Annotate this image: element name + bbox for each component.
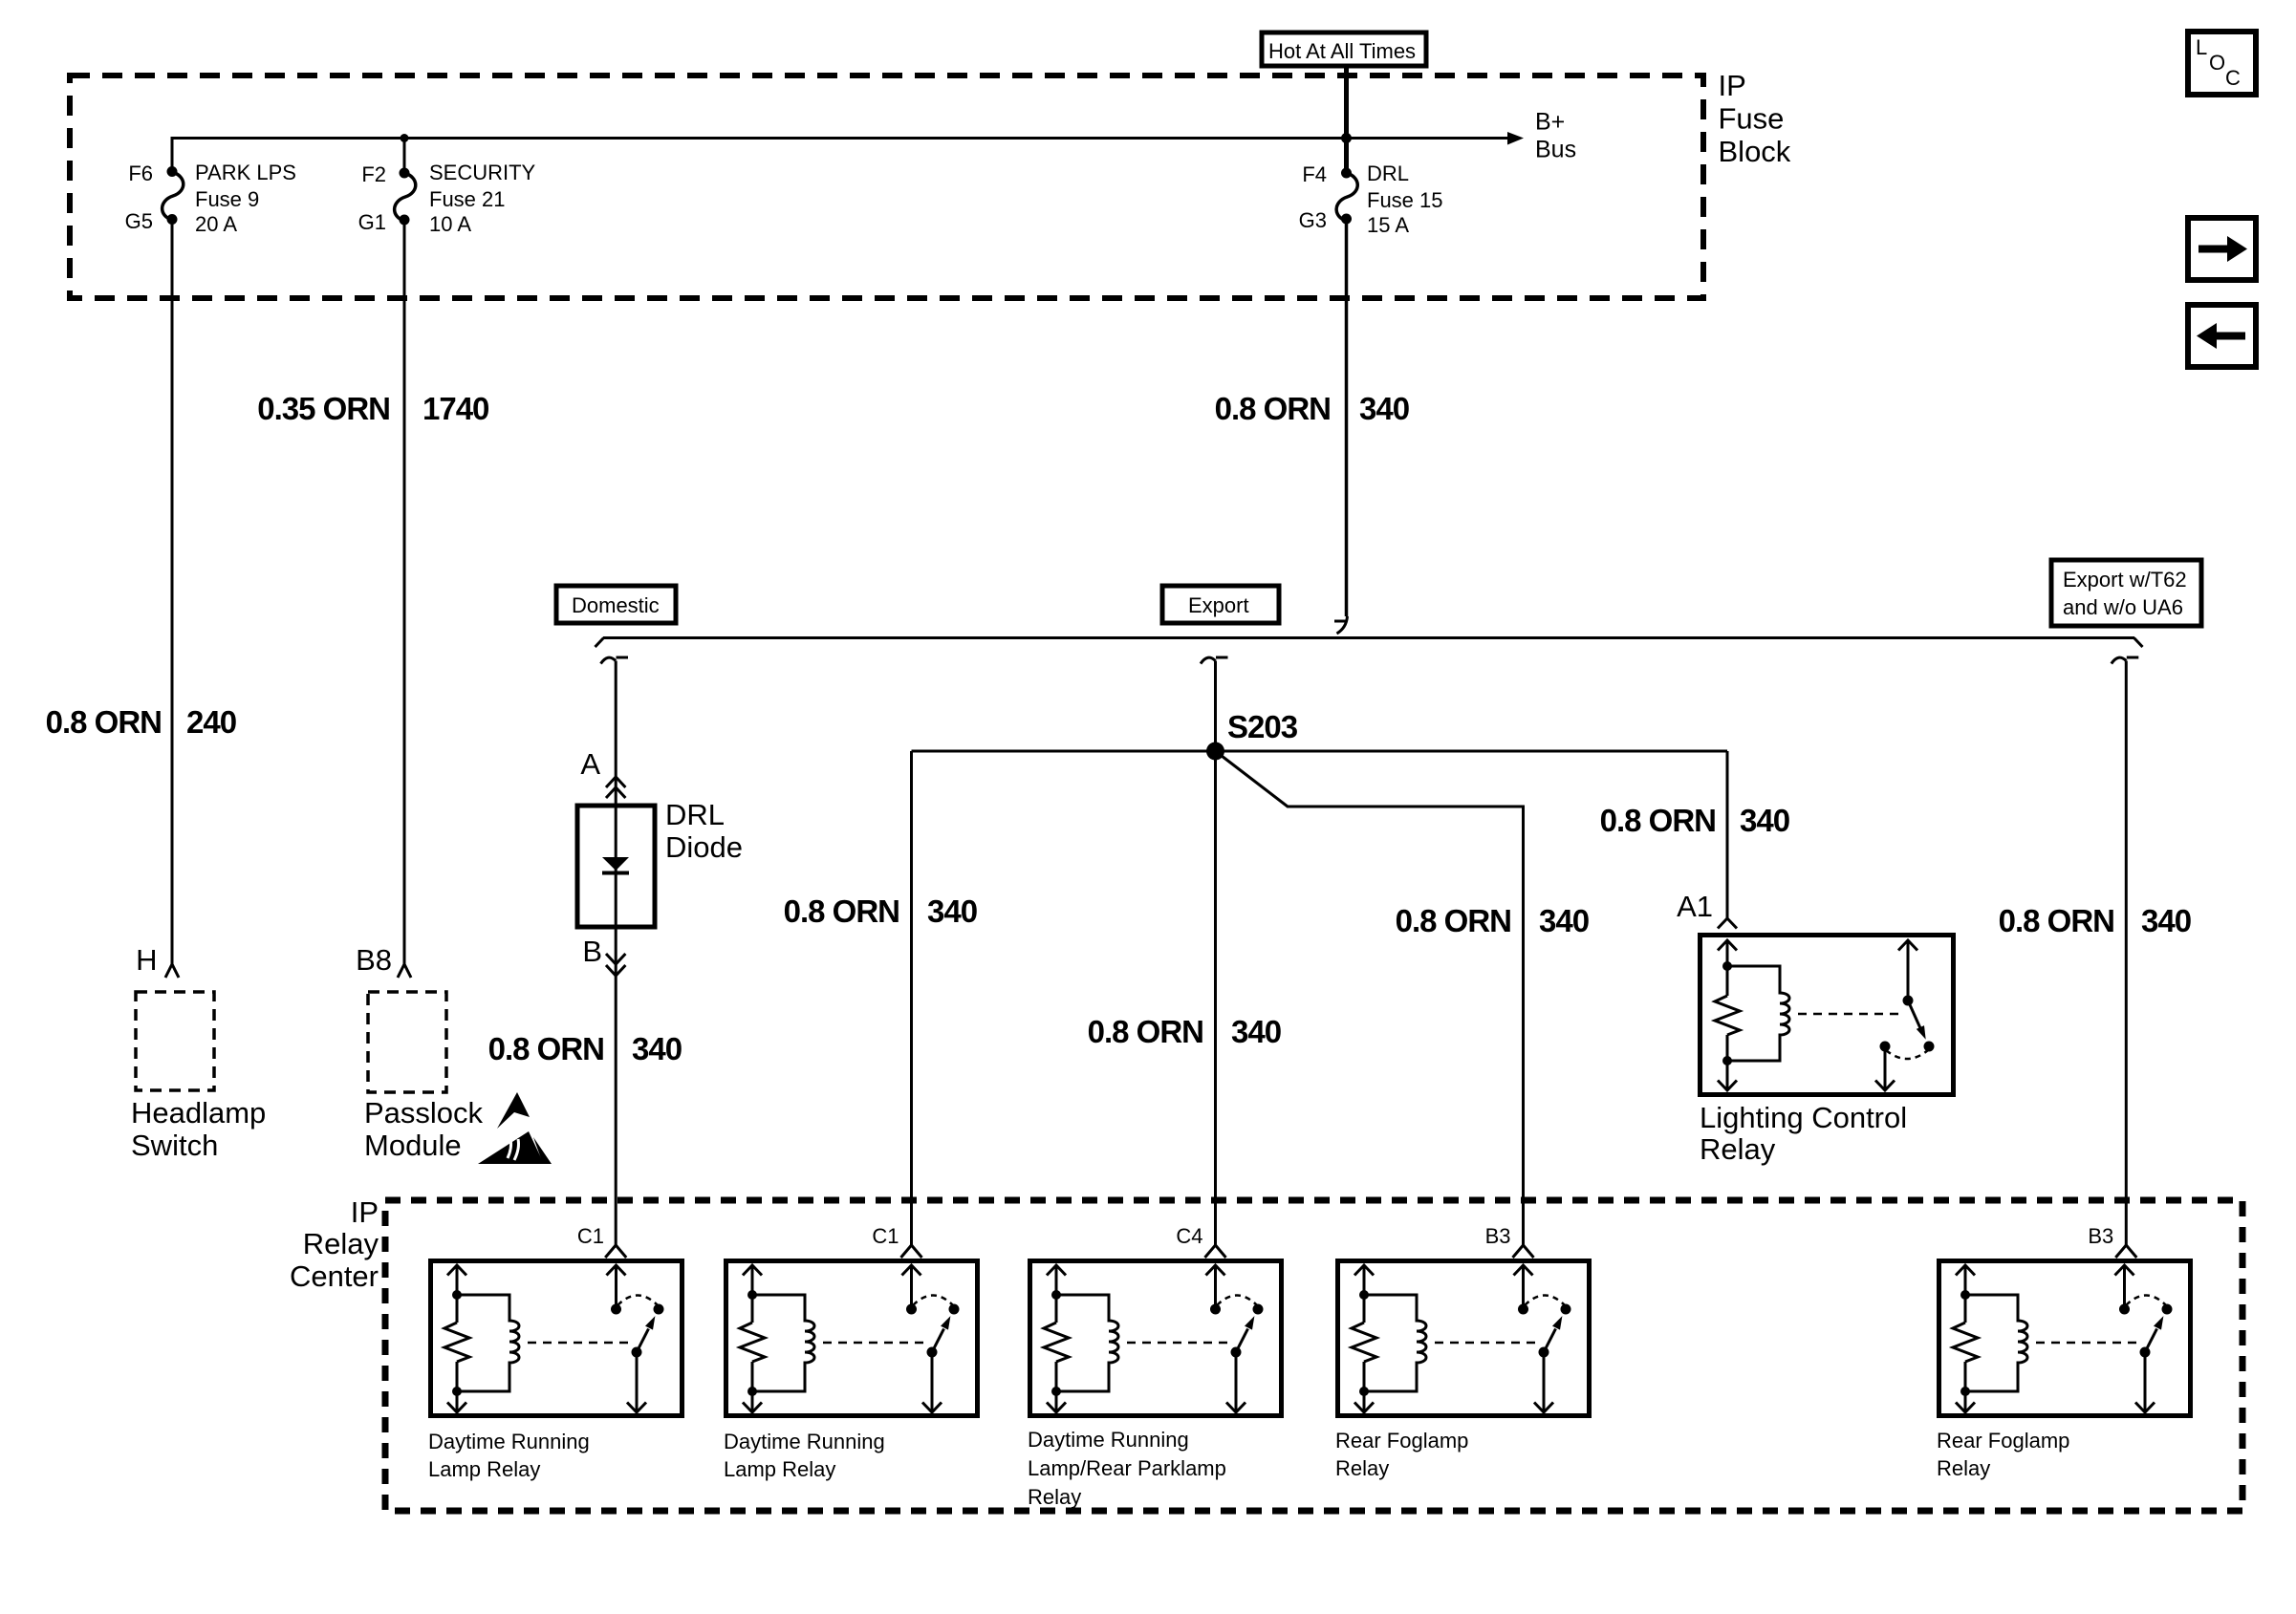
svg-text:A: A bbox=[580, 747, 600, 781]
svg-text:20 A: 20 A bbox=[195, 212, 237, 236]
svg-text:Lamp Relay: Lamp Relay bbox=[724, 1457, 835, 1481]
svg-text:Fuse 15: Fuse 15 bbox=[1367, 188, 1443, 212]
svg-text:Headlamp: Headlamp bbox=[131, 1096, 266, 1130]
svg-text:B: B bbox=[582, 935, 602, 968]
svg-text:C4: C4 bbox=[1176, 1224, 1202, 1248]
svg-text:Daytime Running: Daytime Running bbox=[428, 1430, 590, 1453]
svg-text:0.8 ORN: 0.8 ORN bbox=[1600, 803, 1716, 838]
svg-text:Center: Center bbox=[290, 1259, 379, 1293]
svg-text:Lamp Relay: Lamp Relay bbox=[428, 1457, 540, 1481]
svg-text:Passlock: Passlock bbox=[364, 1096, 484, 1130]
svg-text:Domestic: Domestic bbox=[572, 593, 660, 617]
svg-text:0.8 ORN: 0.8 ORN bbox=[46, 704, 162, 740]
svg-text:Relay: Relay bbox=[1937, 1456, 1990, 1480]
svg-text:Daytime Running: Daytime Running bbox=[724, 1430, 885, 1453]
svg-text:Module: Module bbox=[364, 1129, 462, 1162]
svg-text:O: O bbox=[2209, 51, 2225, 75]
svg-text:Export: Export bbox=[1188, 593, 1249, 617]
svg-text:and w/o UA6: and w/o UA6 bbox=[2063, 595, 2183, 619]
svg-text:Lamp/Rear Parklamp: Lamp/Rear Parklamp bbox=[1028, 1456, 1226, 1480]
svg-text:IP: IP bbox=[351, 1195, 379, 1229]
svg-text:340: 340 bbox=[927, 893, 977, 929]
svg-text:C1: C1 bbox=[872, 1224, 899, 1248]
svg-text:0.8 ORN: 0.8 ORN bbox=[1215, 391, 1331, 426]
svg-text:Relay: Relay bbox=[1700, 1132, 1776, 1166]
svg-text:Fuse: Fuse bbox=[1719, 102, 1785, 136]
svg-text:C: C bbox=[2225, 66, 2241, 90]
svg-text:IP: IP bbox=[1719, 69, 1746, 102]
svg-text:Relay: Relay bbox=[303, 1227, 379, 1260]
svg-text:Fuse 9: Fuse 9 bbox=[195, 187, 259, 211]
svg-text:Fuse 21: Fuse 21 bbox=[429, 187, 506, 211]
svg-text:0.8 ORN: 0.8 ORN bbox=[1088, 1014, 1203, 1049]
svg-text:A1: A1 bbox=[1677, 890, 1713, 923]
svg-text:B3: B3 bbox=[1485, 1224, 1511, 1248]
svg-text:Hot At All Times: Hot At All Times bbox=[1268, 39, 1416, 63]
svg-text:340: 340 bbox=[1359, 391, 1409, 426]
svg-text:Relay: Relay bbox=[1335, 1456, 1389, 1480]
svg-text:10 A: 10 A bbox=[429, 212, 471, 236]
svg-text:SECURITY: SECURITY bbox=[429, 161, 536, 184]
svg-text:C1: C1 bbox=[577, 1224, 604, 1248]
svg-text:DRL: DRL bbox=[665, 798, 725, 831]
svg-text:Switch: Switch bbox=[131, 1129, 218, 1162]
svg-text:G3: G3 bbox=[1299, 208, 1327, 232]
svg-text:F2: F2 bbox=[361, 162, 386, 186]
svg-text:Lighting Control: Lighting Control bbox=[1700, 1101, 1907, 1134]
svg-text:240: 240 bbox=[186, 704, 236, 740]
svg-text:S203: S203 bbox=[1227, 709, 1298, 744]
svg-text:F4: F4 bbox=[1302, 162, 1327, 186]
svg-text:G1: G1 bbox=[358, 210, 386, 234]
svg-text:Export w/T62: Export w/T62 bbox=[2063, 568, 2187, 592]
svg-text:1740: 1740 bbox=[422, 391, 488, 426]
svg-text:G5: G5 bbox=[125, 209, 153, 233]
svg-text:B3: B3 bbox=[2088, 1224, 2113, 1248]
svg-text:Daytime Running: Daytime Running bbox=[1028, 1428, 1189, 1452]
svg-text:340: 340 bbox=[1740, 803, 1789, 838]
svg-text:Relay: Relay bbox=[1028, 1485, 1081, 1509]
svg-text:0.35 ORN: 0.35 ORN bbox=[257, 391, 390, 426]
svg-text:H: H bbox=[136, 943, 157, 977]
svg-text:0.8 ORN: 0.8 ORN bbox=[488, 1031, 604, 1066]
svg-text:340: 340 bbox=[632, 1031, 682, 1066]
svg-text:B8: B8 bbox=[356, 943, 392, 977]
svg-text:PARK LPS: PARK LPS bbox=[195, 161, 296, 184]
svg-text:340: 340 bbox=[2141, 903, 2191, 938]
svg-text:0.8 ORN: 0.8 ORN bbox=[784, 893, 899, 929]
svg-text:340: 340 bbox=[1231, 1014, 1281, 1049]
svg-text:B+: B+ bbox=[1535, 109, 1565, 136]
svg-text:F6: F6 bbox=[128, 161, 153, 185]
svg-text:Rear Foglamp: Rear Foglamp bbox=[1937, 1429, 2069, 1453]
svg-text:Rear Foglamp: Rear Foglamp bbox=[1335, 1429, 1468, 1453]
svg-text:0.8 ORN: 0.8 ORN bbox=[1999, 903, 2114, 938]
svg-text:DRL: DRL bbox=[1367, 161, 1409, 185]
svg-text:Bus: Bus bbox=[1535, 137, 1576, 163]
svg-text:15 A: 15 A bbox=[1367, 213, 1409, 237]
svg-text:Diode: Diode bbox=[665, 830, 743, 864]
svg-text:L: L bbox=[2196, 35, 2207, 59]
svg-text:340: 340 bbox=[1539, 903, 1589, 938]
svg-text:0.8 ORN: 0.8 ORN bbox=[1396, 903, 1511, 938]
svg-text:Block: Block bbox=[1719, 135, 1791, 168]
